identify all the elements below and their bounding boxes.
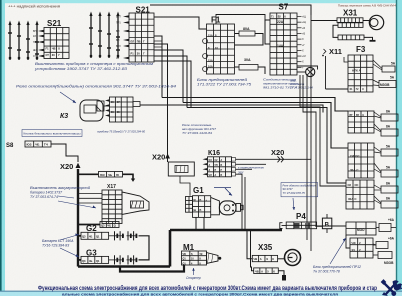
wire staircase 1: [154, 36, 162, 98]
note above G1 plug: [214, 187, 231, 189]
socket ring: [278, 258, 284, 260]
plug right of T4: [379, 224, 391, 232]
connector X17 table: [102, 190, 122, 224]
tools icon (wrench and screwdriver): [384, 283, 395, 295]
battery G2 terminals strip: [81, 232, 109, 239]
fuse 5A T2b: [381, 170, 398, 177]
wire K16 row4 down: [236, 174, 243, 229]
S21 variant1 pin pointers: [38, 30, 44, 33]
battery G3 cells: [113, 259, 124, 261]
wire staircase 5: [154, 61, 191, 108]
F1 cable entries: [203, 39, 208, 44]
small relay under X20 (2): [168, 162, 194, 176]
K3 right stub: [133, 102, 140, 107]
fuse 8A T1a: [381, 114, 398, 121]
connector block right T2: [348, 143, 374, 178]
note box S8: [22, 130, 82, 137]
fuse block F3 table: [348, 55, 373, 92]
wire T4 to T5: [346, 235, 350, 248]
control lamp HL: [306, 67, 315, 76]
wire right bus v4: [300, 75, 346, 186]
fuse block F1 table: [207, 24, 235, 74]
X17 left feed wires: [78, 193, 102, 195]
wire S8 to X20: [51, 144, 78, 162]
relay K3 pictorial: [80, 100, 103, 121]
relay K3 connector table: [110, 97, 134, 122]
wire F3 left: [344, 57, 348, 62]
generator G1 round end: [219, 201, 236, 215]
wire S21 to S7 top: [150, 5, 311, 15]
generator G1 body table: [193, 196, 211, 218]
main battery wire down: [77, 169, 79, 267]
starter M1 table: [182, 251, 207, 265]
wire staircase 3: [154, 50, 183, 103]
wire staircase 2 (long to X20): [154, 44, 168, 162]
fan lines right column: [374, 116, 381, 118]
connector X35 strip 1: [252, 255, 277, 261]
wire right bus v2: [306, 75, 308, 240]
control lamp HL wire loop: [297, 66, 318, 70]
wire S7 to X31: [311, 20, 337, 22]
wire K16 row1 to X20: [236, 158, 312, 160]
switch S21 (variant 1) contact table: [44, 28, 69, 59]
connector X31 strip 3: [333, 25, 338, 37]
battery switch pictorial: [122, 192, 149, 215]
S7 right pin stubs: [297, 16, 302, 18]
K3 left plug: [97, 101, 104, 111]
S21 variant2 pin pointers: [123, 15, 129, 18]
fuse MZOV right of F3: [379, 81, 396, 88]
battery G3 terminals strip: [81, 256, 109, 263]
wire right bus v1: [310, 15, 312, 251]
fuse 8A T3b: [381, 201, 398, 208]
connector block right T3: [346, 180, 374, 209]
component B box: [322, 218, 331, 229]
S21 variant2 right stub: [154, 41, 162, 47]
wire staircase 4: [154, 56, 187, 108]
switch strip above X17: [99, 172, 123, 178]
starter M1 nose cone: [207, 253, 219, 264]
S7 left bracket wire: [265, 20, 270, 44]
switch S21 (variant 2) contact table: [129, 13, 154, 62]
K16 left pointers: [203, 158, 208, 160]
generator G1 tip: [236, 204, 241, 212]
fuse 5A T2a: [381, 149, 398, 156]
wire S21 to F1 top: [154, 17, 207, 29]
wire K16 row2: [236, 163, 267, 165]
switch contacts left group 2: [90, 15, 92, 58]
fuse block PR12 T5: [350, 238, 373, 258]
connector block S7 table: [270, 13, 297, 75]
generator G1 neck: [211, 197, 220, 214]
fuse 8A T1b: [381, 129, 398, 136]
main bus wire 1: [162, 98, 348, 112]
main bus wire 3: [187, 108, 346, 184]
wire X11 down: [325, 56, 327, 89]
ground at X31: [364, 37, 373, 40]
connector X31 strip 1: [337, 18, 363, 23]
ground X35: [278, 271, 284, 275]
fuse 5A upper right of F3: [382, 66, 395, 72]
switch S8 strip: [25, 141, 51, 147]
wire F1 to S7: [216, 15, 265, 25]
connector X31 strip 2: [338, 23, 363, 28]
heavy wire to starter M1: [170, 265, 184, 272]
wire battery series link: [139, 236, 150, 260]
wire right bus v3: [303, 75, 346, 226]
generator G1 left pin column: [186, 197, 193, 213]
K3 left pointers: [105, 99, 110, 101]
wires bus down to X35: [247, 231, 252, 259]
lamp at X31: [369, 15, 383, 29]
fuse 8A T3a: [381, 186, 398, 193]
heavy wire battery loop: [78, 265, 170, 268]
X17 bottom strip: [100, 222, 119, 228]
main bus wire 4 (from K3): [140, 105, 323, 113]
relay K16 table: [208, 157, 232, 177]
switch contacts left group 1: [9, 24, 11, 60]
connector block right T4: [346, 222, 376, 235]
connector X35 strip 2: [254, 268, 279, 274]
wire K16 row3: [236, 168, 253, 170]
connector block upper right T1: [348, 111, 374, 133]
plug right of T5: [376, 242, 388, 249]
battery G2 cells: [113, 235, 124, 237]
relay P4 block: [294, 223, 300, 228]
wires G1 to bus: [195, 217, 197, 229]
main bus wire 2: [183, 103, 348, 149]
K16 right stubs / wires: [232, 158, 236, 162]
note box relay P4: [281, 183, 318, 197]
